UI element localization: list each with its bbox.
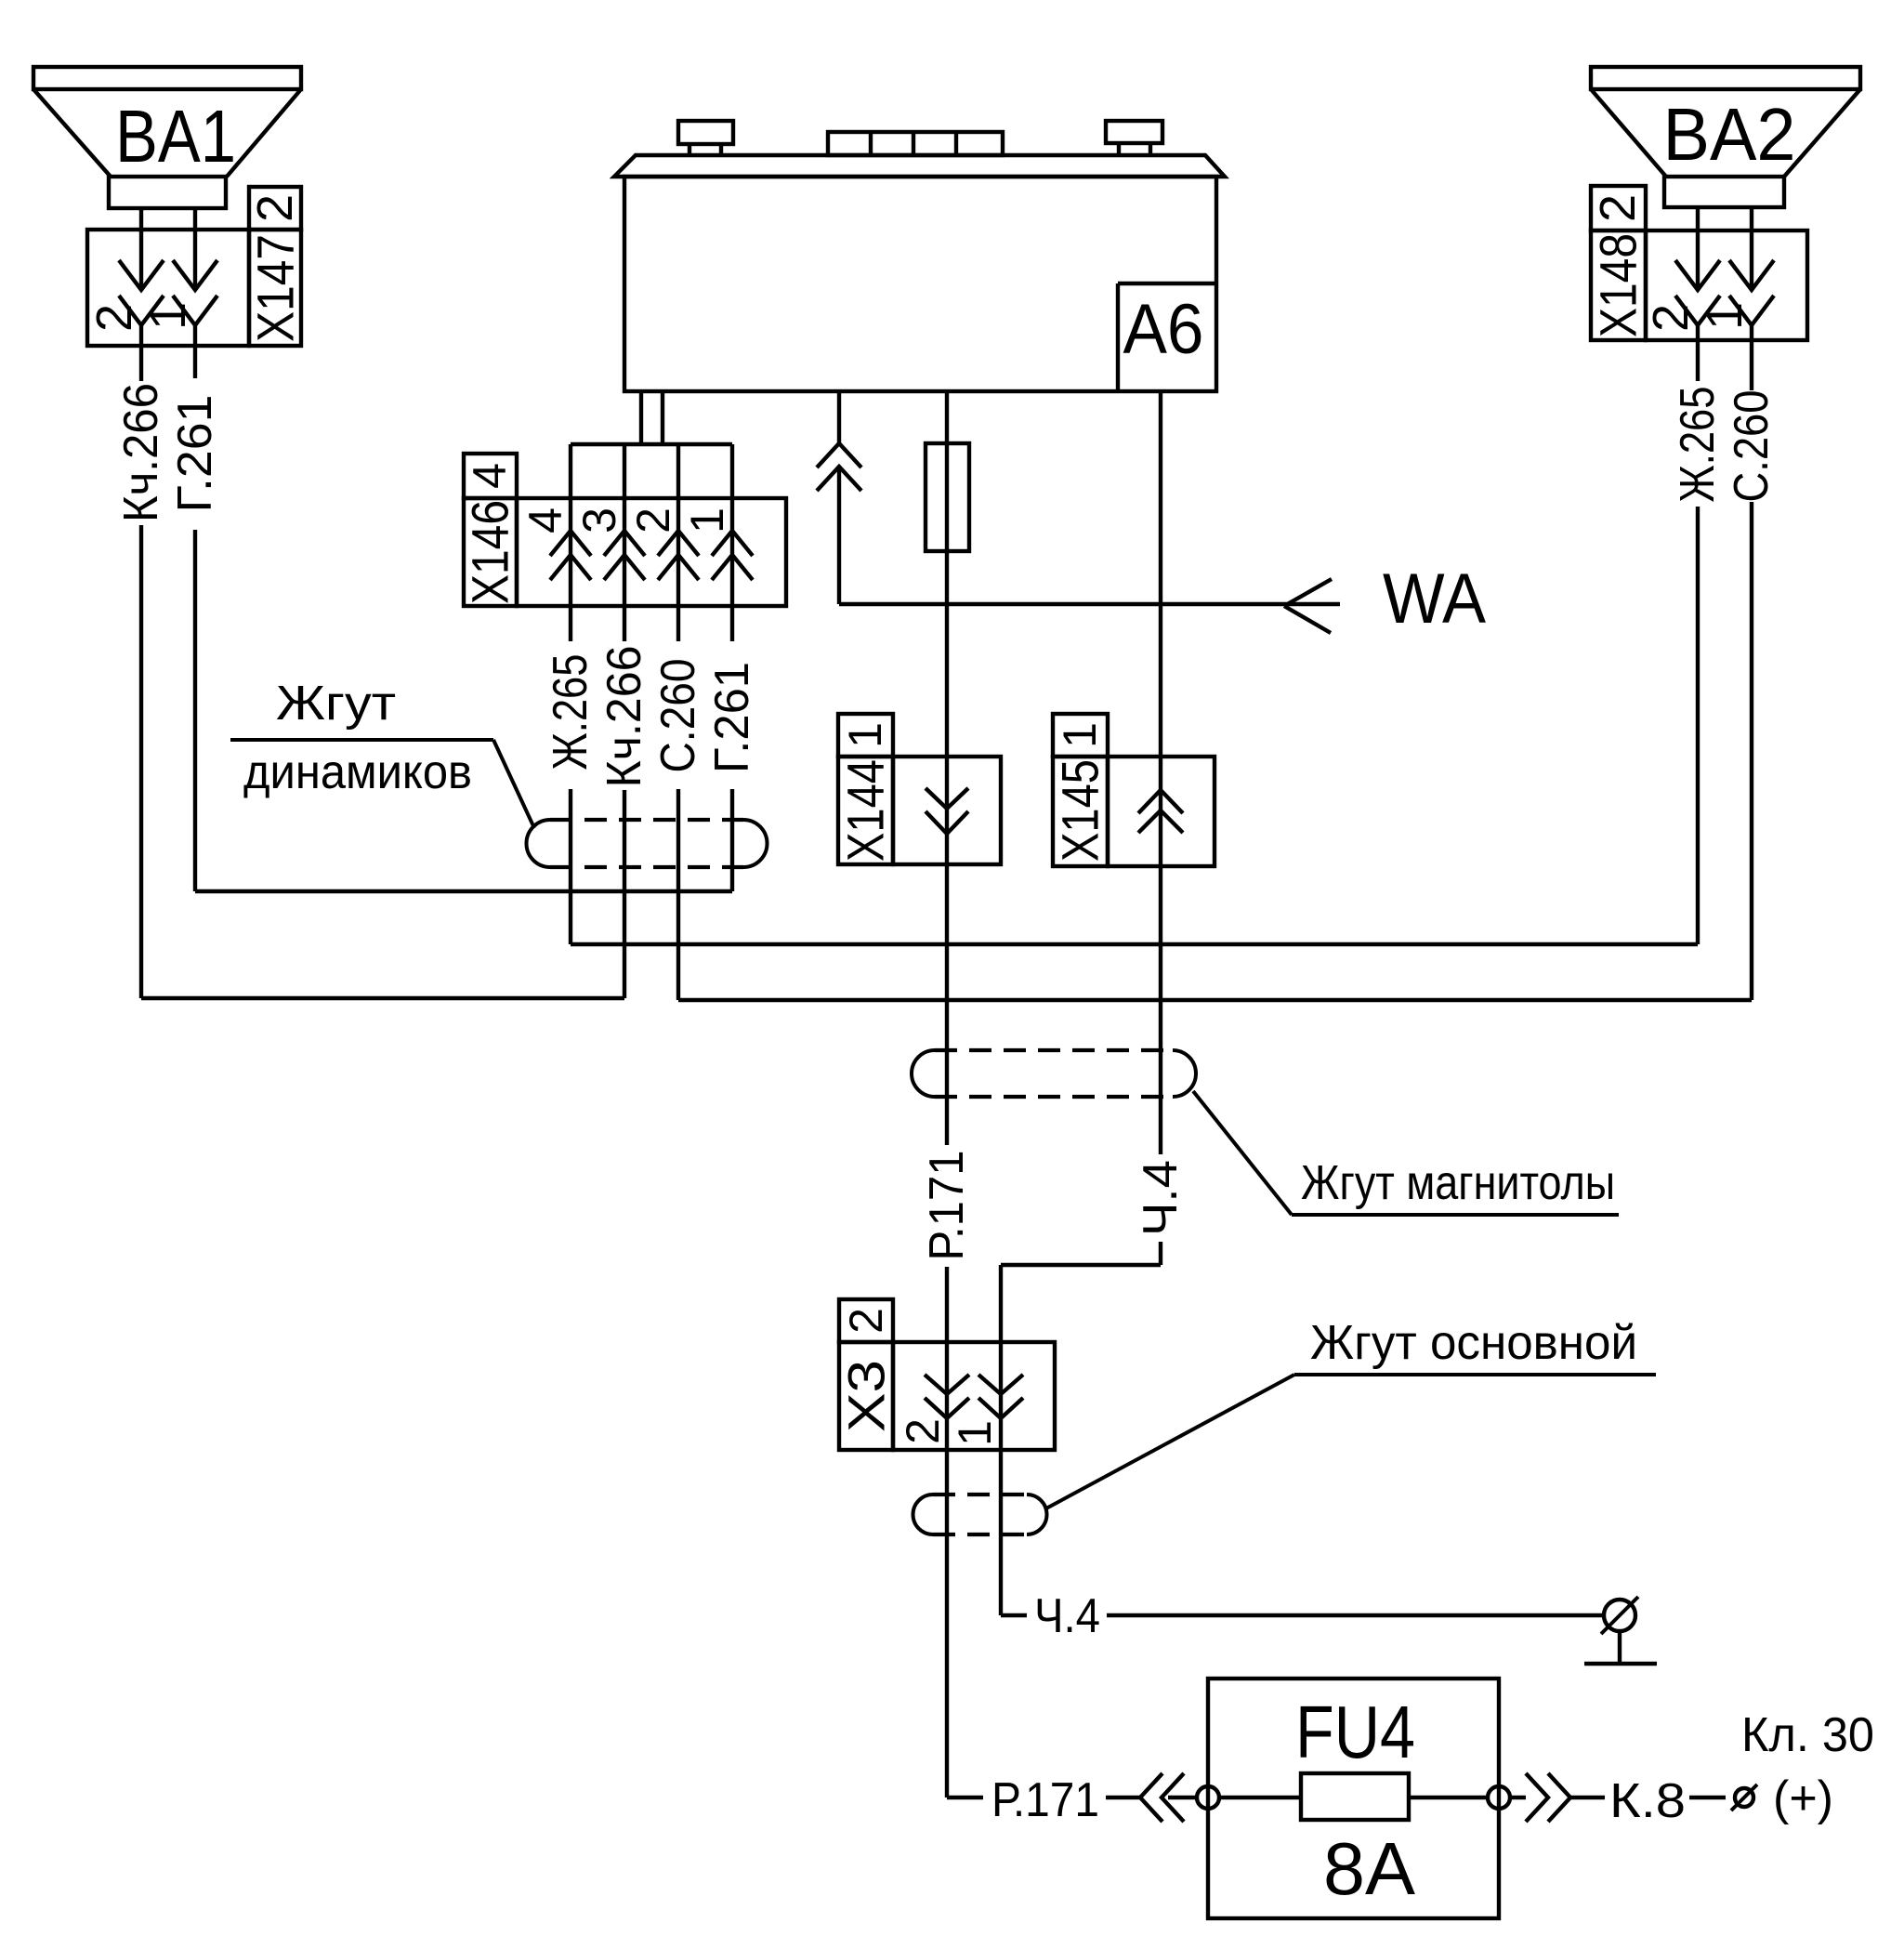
- svg-text:2: 2: [86, 304, 142, 332]
- svg-text:X147: X147: [246, 234, 305, 342]
- svg-text:1: 1: [681, 507, 733, 533]
- svg-text:Г.261: Г.261: [705, 662, 759, 773]
- svg-text:X144: X144: [836, 759, 895, 862]
- svg-text:1: 1: [140, 302, 196, 330]
- svg-text:Ч.4: Ч.4: [1034, 1589, 1100, 1643]
- svg-text:(+): (+): [1773, 1771, 1833, 1825]
- svg-text:X148: X148: [1589, 233, 1648, 337]
- svg-text:Ч.4: Ч.4: [1134, 1160, 1188, 1236]
- svg-text:Ж.265: Ж.265: [544, 654, 597, 770]
- svg-text:Г.261: Г.261: [168, 395, 222, 513]
- svg-text:Ж.265: Ж.265: [1671, 387, 1725, 503]
- svg-text:С.260: С.260: [1725, 390, 1779, 503]
- svg-text:К.8: К.8: [1609, 1774, 1686, 1828]
- svg-text:X146: X146: [461, 500, 519, 604]
- svg-text:Кл. 30: Кл. 30: [1741, 1708, 1874, 1762]
- svg-text:Жгут основной: Жгут основной: [1310, 1316, 1637, 1370]
- svg-text:Р.171: Р.171: [920, 1151, 974, 1261]
- svg-text:1: 1: [1054, 722, 1106, 748]
- svg-text:Кч.266: Кч.266: [597, 646, 651, 788]
- svg-text:3: 3: [573, 507, 625, 533]
- svg-text:Жгут магнитолы: Жгут магнитолы: [1301, 1156, 1615, 1210]
- svg-text:Кч.266: Кч.266: [114, 383, 168, 522]
- svg-text:1: 1: [839, 722, 891, 748]
- svg-text:4: 4: [464, 463, 516, 489]
- svg-text:FU4: FU4: [1295, 1691, 1415, 1773]
- svg-text:С.260: С.260: [651, 659, 705, 773]
- svg-text:2: 2: [247, 194, 303, 222]
- svg-text:BA2: BA2: [1663, 93, 1796, 176]
- svg-text:2: 2: [897, 1418, 949, 1444]
- svg-text:X145: X145: [1051, 759, 1110, 862]
- svg-text:Р.171: Р.171: [991, 1773, 1099, 1827]
- svg-text:1: 1: [1697, 302, 1753, 330]
- svg-text:X3: X3: [837, 1360, 896, 1432]
- svg-text:2: 2: [627, 507, 679, 533]
- svg-text:2: 2: [840, 1308, 892, 1334]
- svg-text:A6: A6: [1123, 290, 1204, 369]
- svg-text:1: 1: [949, 1420, 1001, 1446]
- svg-text:WA: WA: [1383, 560, 1486, 639]
- svg-text:4: 4: [519, 507, 571, 533]
- svg-text:Жгут: Жгут: [276, 677, 396, 731]
- svg-text:2: 2: [1590, 194, 1646, 222]
- svg-text:динамиков: динамиков: [243, 745, 472, 799]
- svg-text:8А: 8А: [1323, 1827, 1416, 1910]
- svg-text:BA1: BA1: [115, 95, 236, 178]
- svg-text:2: 2: [1643, 304, 1699, 332]
